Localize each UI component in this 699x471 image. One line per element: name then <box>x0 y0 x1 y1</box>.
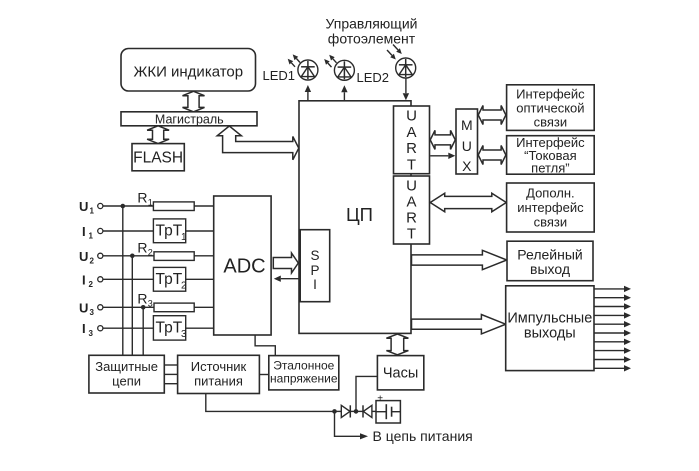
arrow: В цепь питания (to supply circuit) <box>335 411 369 439</box>
svg-text:A: A <box>406 194 416 211</box>
resistor R1 <box>153 202 194 211</box>
svg-text:ЖКИ индикатор: ЖКИ индикатор <box>133 63 243 80</box>
svg-text:В цепь питания: В цепь питания <box>373 428 473 444</box>
svg-text:3: 3 <box>148 299 153 309</box>
photo element incident-light arrows <box>387 45 402 60</box>
wire: I1 input <box>103 230 214 232</box>
label: U2 <box>79 249 95 266</box>
bus arrow: ЦП ↔ Часы <box>386 334 408 355</box>
wire: VD1 → node B <box>350 410 363 412</box>
bus arrow: MUX ↔ интерфейс оптической связи <box>478 106 506 125</box>
svg-text:R: R <box>137 291 147 307</box>
svg-text:P: P <box>310 263 319 278</box>
svg-text:+: + <box>377 393 383 404</box>
svg-text:FLASH: FLASH <box>133 150 183 167</box>
svg-text:связи: связи <box>534 215 568 230</box>
bus arrow: MUX ↔ интерфейс токовая петля <box>478 146 506 165</box>
svg-text:1: 1 <box>181 232 187 243</box>
resistor R2 <box>154 252 194 261</box>
label: LED1 <box>263 68 296 83</box>
block: UART 2 <box>394 176 430 244</box>
label: LED2 <box>357 70 390 85</box>
label: В цепь питания <box>373 428 473 444</box>
backup battery G1 <box>376 393 400 423</box>
diode VD1 <box>335 405 351 417</box>
svg-text:Магистраль: Магистраль <box>155 112 224 126</box>
svg-text:Дополн.: Дополн. <box>526 186 575 201</box>
svg-text:1: 1 <box>90 207 95 216</box>
LED2 emission arrows <box>324 55 336 67</box>
svg-text:R: R <box>406 140 417 157</box>
bus arrow: UART2 ↔ дополнительный интерфейс <box>430 193 506 212</box>
svg-text:LED2: LED2 <box>357 70 390 85</box>
svg-text:напряжение: напряжение <box>270 372 338 386</box>
pulse output arrows (10) <box>594 286 631 372</box>
svg-text:2: 2 <box>90 256 95 265</box>
svg-text:T: T <box>407 156 416 173</box>
photo element symbol <box>396 58 416 78</box>
node: battery junction B <box>354 409 359 414</box>
wire: U1 input <box>103 205 214 207</box>
input terminals (6) <box>98 203 103 330</box>
arrow: ЦП → LED1 <box>305 85 311 100</box>
label: R3 <box>137 291 152 309</box>
svg-text:интерфейс: интерфейс <box>517 200 584 215</box>
svg-text:U: U <box>79 300 88 315</box>
svg-text:1: 1 <box>89 232 94 241</box>
wire: U2 tap to защитные цепи <box>131 256 133 355</box>
wire: U3 tap to защитные цепи <box>142 307 144 355</box>
bus arrow: ЖКИ индикатор ↔ Магистраль <box>183 91 205 112</box>
block: Интерфейс оптической связи (optical interface) <box>507 85 595 131</box>
svg-text:Эталонное: Эталонное <box>273 359 334 373</box>
bus arrow: UART1 ↔ MUX <box>430 130 455 149</box>
block: Защитные цепи (protection circuits) <box>89 355 164 393</box>
current transformer ТрТ3 <box>153 316 187 340</box>
label: R1 <box>137 190 152 208</box>
LED1 emission arrows <box>288 54 300 66</box>
svg-text:Часы: Часы <box>383 366 418 382</box>
wire: node B → Часы <box>356 376 377 411</box>
arrow: ЦП → LED2 <box>341 85 347 100</box>
label: R2 <box>137 240 152 258</box>
block: SPI <box>300 230 330 302</box>
wire: ADC → эталонное напряжение <box>255 335 275 356</box>
svg-text:питания: питания <box>194 373 243 388</box>
svg-text:2: 2 <box>89 280 94 289</box>
svg-text:2: 2 <box>148 248 153 258</box>
svg-text:T: T <box>407 226 416 243</box>
junction node on U2 <box>130 254 135 259</box>
svg-text:ЦП: ЦП <box>346 204 373 225</box>
block: Дополн. интерфейс связи (additional interface) <box>507 183 595 232</box>
wire: источник питания ↔ эталонное напряжение <box>259 374 268 376</box>
arrow: SPI → ADC <box>274 276 300 282</box>
svg-text:выход: выход <box>530 261 570 277</box>
svg-text:Управляющий: Управляющий <box>326 16 418 32</box>
svg-text:U: U <box>406 178 417 195</box>
current transformer ТрТ1 <box>153 219 187 243</box>
svg-text:3: 3 <box>89 329 94 338</box>
label: I2 <box>82 272 94 289</box>
svg-text:Источник: Источник <box>191 359 247 374</box>
wire: I2 input <box>103 278 214 280</box>
svg-text:M: M <box>461 117 473 133</box>
svg-text:I: I <box>82 272 86 287</box>
junction node on U3 <box>141 305 146 310</box>
svg-text:1: 1 <box>148 198 153 208</box>
block: Релейный выход (relay output) <box>507 241 593 281</box>
svg-text:I: I <box>313 277 317 292</box>
svg-text:U: U <box>406 108 417 125</box>
svg-text:R: R <box>137 190 147 206</box>
svg-text:3: 3 <box>181 329 187 340</box>
block: FLASH memory <box>132 144 184 171</box>
svg-text:Импульсные: Импульсные <box>507 311 592 327</box>
block: Магистраль (bus) <box>121 112 257 127</box>
arrow: ЦП → релейный выход <box>412 250 507 269</box>
block: UART 1 <box>394 106 430 174</box>
svg-text:оптической: оптической <box>516 101 584 116</box>
wire: U2 input <box>103 255 214 257</box>
arrow: фотоэлемент → ЦП <box>403 78 409 100</box>
label: I1 <box>82 224 94 241</box>
label: U3 <box>79 300 95 317</box>
label: U1 <box>79 199 95 216</box>
svg-text:выходы: выходы <box>524 326 576 342</box>
svg-text:I: I <box>82 321 86 336</box>
svg-text:ADC: ADC <box>223 255 265 277</box>
block: ЖКИ индикатор (LCD indicator) <box>121 49 256 92</box>
svg-text:фотоэлемент: фотоэлемент <box>328 31 416 47</box>
block: Часы (clock) <box>377 356 423 390</box>
svg-text:I: I <box>82 224 86 239</box>
block: Импульсные выходы (pulse outputs) <box>506 286 594 371</box>
label: I3 <box>82 321 94 338</box>
LED2 symbol <box>334 60 354 80</box>
svg-text:LED1: LED1 <box>263 68 296 83</box>
svg-text:X: X <box>462 158 472 174</box>
svg-text:A: A <box>406 124 416 141</box>
node: power rail junction A <box>332 409 337 414</box>
svg-text:U: U <box>462 138 472 154</box>
arrow: ЦП → импульсные выходы <box>412 315 506 334</box>
wire: U3 input <box>103 306 214 308</box>
block: ЦП (CPU) <box>299 101 411 334</box>
wire: U1 tap to защитные цепи <box>122 206 124 355</box>
block: Источник питания (power supply) <box>178 355 260 393</box>
arrow: UART1 → MUX select <box>430 153 455 159</box>
svg-text:петля”: петля” <box>531 161 569 176</box>
wire: I3 input <box>103 327 214 329</box>
svg-text:U: U <box>79 249 88 264</box>
junction node on U1 <box>121 204 126 209</box>
svg-text:ТрТ: ТрТ <box>156 223 183 240</box>
block: Интерфейс Токовая петля (current-loop interface) <box>507 135 595 176</box>
LED1 symbol <box>298 60 318 80</box>
svg-text:3: 3 <box>90 308 95 317</box>
svg-text:цепи: цепи <box>112 373 141 388</box>
block: MUX multiplexer <box>456 109 478 174</box>
svg-text:ТрТ: ТрТ <box>156 271 183 288</box>
block: ADC <box>214 196 271 335</box>
label: Управляющий фотоэлемент <box>326 16 418 47</box>
elbow bus arrow: Магистраль ↔ ЦП <box>217 126 299 160</box>
svg-text:R: R <box>406 210 417 227</box>
block: Эталонное напряжение (reference voltage) <box>269 356 339 390</box>
wire: источник питания → power rail <box>206 394 335 412</box>
svg-text:Интерфейс: Интерфейс <box>516 87 585 102</box>
diode VD2 <box>363 405 376 417</box>
svg-text:связи: связи <box>534 115 568 130</box>
wires: защитные цепи ↔ источник питания (3) <box>164 365 177 384</box>
svg-text:U: U <box>79 199 88 214</box>
svg-text:S: S <box>310 248 319 263</box>
svg-text:2: 2 <box>181 281 187 292</box>
svg-text:Защитные: Защитные <box>95 359 158 374</box>
resistor R3 <box>154 303 194 312</box>
bus arrow: Магистраль ↔ FLASH <box>147 126 169 144</box>
svg-text:ТрТ: ТрТ <box>156 320 183 337</box>
svg-text:R: R <box>137 240 147 256</box>
arrow: ADC → SPI <box>273 253 298 273</box>
current transformer ТрТ2 <box>153 267 187 291</box>
